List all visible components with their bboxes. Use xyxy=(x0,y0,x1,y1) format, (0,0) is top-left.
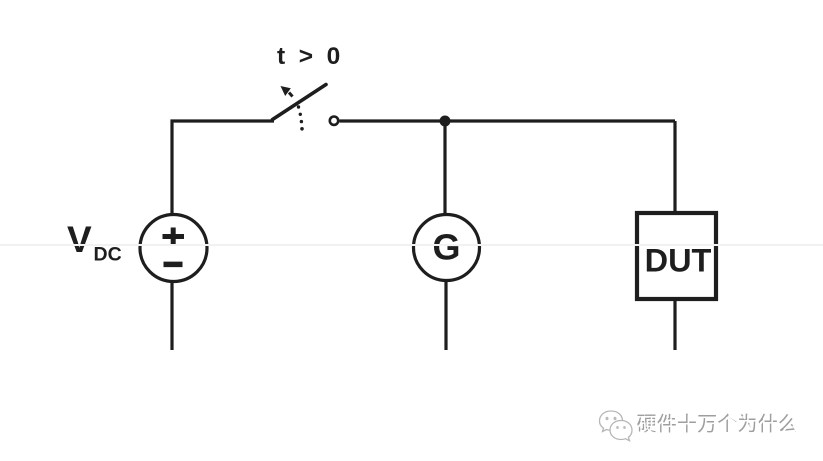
switch dotted travel path xyxy=(289,93,304,131)
switch open terminal xyxy=(330,117,338,125)
svg-text:V: V xyxy=(67,219,92,260)
junction node xyxy=(440,116,451,127)
voltage source V_DC xyxy=(140,215,207,282)
watermark logo xyxy=(595,407,640,447)
wire from switch terminal to DUT branch xyxy=(340,119,676,122)
wire junction down to galvanometer xyxy=(443,121,446,215)
wire down to DUT xyxy=(673,121,676,213)
wire below DUT xyxy=(673,300,676,350)
switch motion arrow xyxy=(281,86,291,96)
watermark text xyxy=(638,414,800,438)
galvanometer G xyxy=(414,215,480,281)
switch blade xyxy=(273,85,327,120)
svg-text:DUT: DUT xyxy=(645,243,712,279)
wire from source top to switch hinge xyxy=(172,121,274,215)
wire below voltage source xyxy=(170,282,173,351)
svg-text:t > 0: t > 0 xyxy=(277,43,344,70)
svg-text:G: G xyxy=(432,227,460,268)
DUT box xyxy=(637,213,716,299)
label V_DC xyxy=(67,219,122,266)
wire below galvanometer xyxy=(444,281,447,351)
svg-text:DC: DC xyxy=(94,244,122,266)
